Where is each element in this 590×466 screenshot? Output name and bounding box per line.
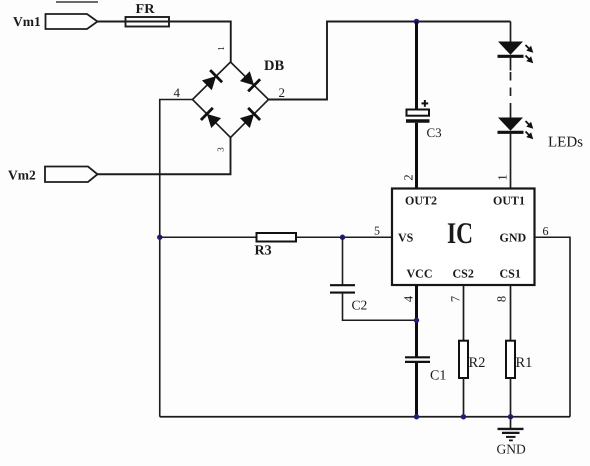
wire C2 to VCC line bbox=[343, 293, 417, 320]
svg-text:OUT1: OUT1 bbox=[493, 194, 525, 208]
wire C3 to OUT2 (thick) bbox=[415, 123, 418, 189]
svg-text:VS: VS bbox=[398, 231, 414, 245]
wire (cropped fragment top-left) bbox=[56, 1, 98, 3]
node bottom rail / R1 bbox=[508, 414, 513, 419]
diode DB bottom-right (3 to 2) bbox=[239, 108, 260, 129]
wire VCC down (thick) bbox=[415, 285, 418, 357]
svg-text:R2: R2 bbox=[469, 355, 486, 371]
wire GND pin to right rail bbox=[535, 237, 571, 417]
node VCC / C2 junction bbox=[414, 318, 419, 323]
wire C1 to bottom rail (thick) bbox=[415, 363, 418, 417]
svg-text:4: 4 bbox=[401, 295, 415, 302]
node R3 left junction bbox=[157, 235, 162, 240]
diode DB top-left (4 to 1) bbox=[201, 70, 222, 91]
port Vm2 bbox=[8, 167, 98, 183]
capacitor C2 bbox=[330, 285, 367, 312]
svg-text:3: 3 bbox=[216, 147, 226, 152]
diode DB top-right (1 to 2) bbox=[239, 70, 260, 91]
wire R2 to bottom rail bbox=[463, 378, 465, 417]
svg-text:6: 6 bbox=[543, 224, 549, 238]
wire CS1 down bbox=[510, 285, 512, 341]
svg-text:CS2: CS2 bbox=[453, 267, 474, 281]
svg-text:C3: C3 bbox=[427, 125, 442, 140]
ground bbox=[497, 417, 526, 457]
node C2 top junction bbox=[340, 235, 345, 240]
svg-text:R1: R1 bbox=[516, 355, 533, 371]
svg-text:7: 7 bbox=[448, 296, 462, 302]
capacitor C1 bbox=[405, 357, 446, 383]
svg-text:FR: FR bbox=[136, 1, 155, 16]
LED D2 bbox=[498, 118, 536, 142]
port Vm1 bbox=[13, 14, 98, 29]
svg-text:1: 1 bbox=[495, 174, 509, 180]
wire CS2 down bbox=[463, 285, 465, 341]
svg-text:C1: C1 bbox=[430, 369, 446, 384]
wire R1 to bottom rail bbox=[510, 378, 512, 417]
resistor R2 bbox=[459, 341, 485, 378]
wire bottom rail bbox=[160, 416, 570, 418]
wire dashed (series continues) bbox=[510, 72, 512, 118]
wire LED string top bbox=[510, 22, 512, 42]
svg-text:IC: IC bbox=[447, 217, 473, 250]
svg-text:1: 1 bbox=[216, 46, 226, 51]
wire junction to C2 bbox=[342, 237, 344, 284]
wire VS row bbox=[160, 236, 392, 238]
svg-text:2: 2 bbox=[401, 174, 415, 180]
wire LED2 to OUT1 bbox=[510, 132, 512, 189]
svg-text:LEDs: LEDs bbox=[548, 135, 583, 151]
svg-text:OUT2: OUT2 bbox=[405, 194, 437, 208]
svg-text:DB: DB bbox=[264, 58, 284, 74]
wire bridge arm bottom-right bbox=[231, 100, 269, 138]
svg-text:8: 8 bbox=[494, 296, 508, 302]
wire Vm2 to bridge node 3 bbox=[98, 138, 231, 175]
svg-text:VCC: VCC bbox=[407, 267, 433, 281]
diode DB bottom-left (3 to 4) bbox=[201, 108, 222, 129]
svg-text:Vm2: Vm2 bbox=[8, 168, 36, 183]
wire bridge arm top-left bbox=[193, 62, 231, 100]
node bottom rail / R2 bbox=[461, 414, 466, 419]
IC U1 bbox=[392, 189, 535, 286]
wire Vm1 to bridge node 1 bbox=[98, 22, 231, 63]
svg-text:R3: R3 bbox=[255, 244, 272, 259]
svg-text:5: 5 bbox=[374, 224, 380, 238]
wire top rail to C3 (thick) bbox=[415, 22, 418, 111]
LED D1 bbox=[498, 42, 536, 66]
wire bridge arm top-right bbox=[231, 62, 269, 100]
svg-text:C2: C2 bbox=[352, 298, 368, 313]
svg-text:GND: GND bbox=[497, 442, 526, 457]
svg-text:Vm1: Vm1 bbox=[13, 14, 41, 29]
svg-text:2: 2 bbox=[279, 85, 286, 100]
capacitor C3 bbox=[406, 100, 442, 140]
resistor R3 bbox=[255, 233, 297, 259]
wire LED1 to dashed bbox=[510, 56, 512, 70]
resistor R1 bbox=[506, 341, 532, 378]
fuse FR bbox=[126, 1, 170, 27]
svg-text:GND: GND bbox=[500, 231, 527, 245]
wire bridge node 2 up to top rail bbox=[269, 22, 511, 100]
svg-text:4: 4 bbox=[174, 85, 181, 100]
wire bridge arm bottom-left bbox=[193, 100, 231, 138]
wire bridge node 4 down left rail bbox=[160, 100, 193, 417]
svg-text:CS1: CS1 bbox=[500, 267, 521, 281]
node top rail junction bbox=[414, 19, 420, 25]
node bottom rail / VCC bbox=[414, 414, 419, 419]
